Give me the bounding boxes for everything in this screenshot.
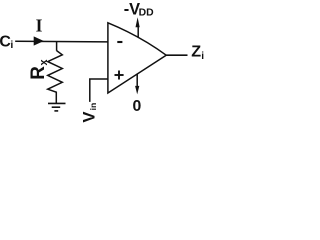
svg-text:R: R [28,66,49,80]
svg-text:I: I [36,15,43,35]
resistor Rx [48,51,63,103]
wire: Ci to inverting input [15,40,108,43]
wire: plus input to Vin [90,79,108,102]
current arrow I [34,36,44,45]
output wire [166,54,188,56]
plus input sign [115,71,124,80]
ground [48,103,66,111]
label Rx [28,58,50,79]
svg-text:0: 0 [133,98,142,115]
svg-text:Z: Z [191,43,201,61]
svg-text:x: x [38,58,50,65]
svg-text:V: V [80,112,99,123]
svg-text:DD: DD [139,8,155,19]
op-amp U1 [108,23,166,93]
label Vin [80,103,99,123]
wire: junction to resistor Rx [56,42,58,51]
arrow to 0 [136,74,138,87]
svg-text:i: i [201,51,204,62]
minus input sign [117,41,122,43]
svg-text:i: i [10,39,13,51]
svg-text:in: in [88,103,98,111]
supply arrow to -VDD [137,26,139,38]
